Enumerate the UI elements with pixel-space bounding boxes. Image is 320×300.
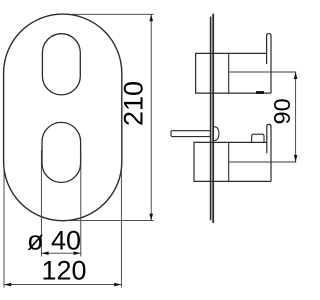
dim 90: bottom arrowhead [294, 155, 298, 162]
front view: bottom obround hole [42, 122, 81, 182]
dim 120: left arrowhead [4, 283, 11, 287]
dim 90: top extension/axis line [229, 71, 297, 73]
side view: bottom valve body outline [194, 142, 271, 181]
dim 120: horizontal dimension line [4, 284, 121, 286]
dim 90: top arrowhead [294, 72, 298, 79]
side view: top valve base dash mark [256, 91, 264, 94]
dim 210: top arrowhead [149, 14, 153, 21]
side view: top valve ring line [228, 53, 230, 93]
side view: bottom valve top knob [252, 134, 264, 142]
dim 120: right extension line [120, 166, 122, 288]
dim 120: right arrowhead [114, 283, 121, 287]
dim ø40: right arrowhead [74, 251, 81, 255]
side view: bottom valve ring line [228, 142, 230, 181]
front view: oval trim plate outline [4, 14, 122, 221]
dim ø40: left extension line [40, 150, 42, 257]
dim 90: bottom extension/axis line [229, 161, 297, 163]
side view: left-pointing lever bar [171, 131, 210, 137]
dim ø40: horizontal dimension line [41, 252, 80, 254]
dim ø40: right extension line [80, 150, 82, 257]
svg-text:ø 40: ø 40 [27, 225, 81, 255]
side view: wall plate edge inner line [210, 17, 212, 221]
svg-text:90: 90 [269, 98, 295, 124]
side view: bottom valve lever handle [267, 124, 271, 181]
side view: top valve body outline [196, 53, 271, 93]
dim ø40: left arrowhead [42, 251, 49, 255]
dim 120: left extension line [3, 162, 5, 288]
dim 210: bottom extension line [69, 220, 154, 222]
side view: wall plate edge outer line [212, 14, 214, 223]
svg-text:120: 120 [41, 255, 86, 285]
side view: hub dome on plate [214, 127, 219, 141]
front view: top obround hole [42, 34, 80, 95]
dim 210: bottom arrowhead [149, 214, 153, 221]
dim 90: vertical dimension line [295, 72, 297, 162]
dim 210: vertical dimension line [150, 14, 152, 220]
svg-text:210: 210 [118, 81, 148, 126]
dim 210: top extension line [72, 13, 154, 15]
side view: top valve lever handle [267, 34, 271, 93]
